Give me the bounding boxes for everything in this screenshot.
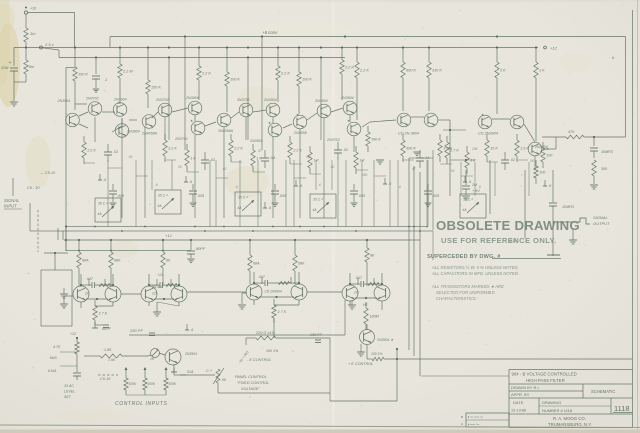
svg-text:.02: .02 xyxy=(510,158,515,162)
svg-text:.1: .1 xyxy=(104,78,107,82)
svg-text:100: 100 xyxy=(539,171,546,175)
svg-text:80PF: 80PF xyxy=(102,327,112,331)
svg-text:+12: +12 xyxy=(550,46,558,51)
svg-text:+6 conv: +6 conv xyxy=(262,30,278,35)
svg-text:B: B xyxy=(461,415,463,419)
svg-text:.047: .047 xyxy=(86,277,94,281)
svg-text:.02: .02 xyxy=(330,165,335,169)
svg-text:DRAWING: DRAWING xyxy=(542,400,561,405)
svg-text:CHARACTERISTICS.: CHARACTERISTICS. xyxy=(436,296,477,301)
svg-text:▮ xxx xxxxx xxx: ▮ xxx xxxxx xxx xyxy=(468,416,484,419)
svg-text:600 K: 600 K xyxy=(406,147,416,151)
svg-text:-6: -6 xyxy=(103,178,106,182)
svg-text:+ 6V: + 6V xyxy=(472,189,480,193)
svg-text:MLB: MLB xyxy=(50,356,57,360)
svg-text:68K: 68K xyxy=(298,262,305,266)
svg-text:1.5K: 1.5K xyxy=(108,358,116,362)
svg-text:2.2 K: 2.2 K xyxy=(233,147,243,151)
svg-text:C5 - 10: C5 - 10 xyxy=(27,186,40,190)
svg-text:DATE: DATE xyxy=(513,400,524,405)
svg-text:8K: 8K xyxy=(166,259,171,263)
svg-text:.02: .02 xyxy=(222,167,227,171)
svg-text:1 K: 1 K xyxy=(256,157,262,161)
svg-text:100K: 100K xyxy=(148,382,156,386)
svg-text:2N3902: 2N3902 xyxy=(249,139,263,143)
svg-text:1M: 1M xyxy=(306,155,311,159)
svg-text:C5-16: C5-16 xyxy=(100,377,111,381)
svg-text:2.2 K: 2.2 K xyxy=(344,66,354,70)
svg-text:SCHEMATIC: SCHEMATIC xyxy=(591,389,615,394)
svg-text:180M: 180M xyxy=(370,315,380,319)
svg-text:2.2 M: 2.2 M xyxy=(122,70,133,74)
svg-text:DRAWN BY R.I.: DRAWN BY R.I. xyxy=(511,385,540,390)
svg-text:SIGNAL: SIGNAL xyxy=(4,198,20,203)
svg-text:OBSOLETE DRAWING: OBSOLETE DRAWING xyxy=(436,218,580,233)
svg-text:100 K: 100 K xyxy=(230,78,240,82)
svg-text:VOLTAGE": VOLTAGE" xyxy=(241,387,260,391)
svg-text:2N3904 ★: 2N3904 ★ xyxy=(376,338,394,342)
svg-text:2N4058A: 2N4058A xyxy=(217,129,234,133)
svg-text:3 MB: 3 MB xyxy=(443,147,452,151)
svg-text:CD 2N3904: CD 2N3904 xyxy=(265,290,282,294)
svg-text:150 K: 150 K xyxy=(78,73,88,77)
svg-text:2N3904: 2N3904 xyxy=(263,98,277,102)
svg-text:100K: 100K xyxy=(169,382,177,386)
svg-text:300: 300 xyxy=(601,167,608,171)
svg-text:-6: -6 xyxy=(398,185,401,189)
svg-text:2N3904: 2N3904 xyxy=(340,96,354,100)
svg-text:12-13-66: 12-13-66 xyxy=(511,409,526,413)
svg-text:-6: -6 xyxy=(388,182,391,186)
svg-text:47K: 47K xyxy=(568,130,575,134)
svg-text:SIGNAL: SIGNAL xyxy=(593,215,608,220)
svg-text:2M: 2M xyxy=(471,183,478,187)
svg-text:-6: -6 xyxy=(318,183,321,187)
svg-text:LEVEL: LEVEL xyxy=(64,390,75,394)
svg-text:C↗: C↗ xyxy=(206,369,213,373)
svg-text:-6: -6 xyxy=(189,180,192,184)
svg-text:CONTROL INPUTS: CONTROL INPUTS xyxy=(115,401,168,407)
svg-text:A: A xyxy=(461,422,463,426)
svg-text:100K: 100K xyxy=(129,382,137,386)
svg-text:-6: -6 xyxy=(235,185,238,189)
svg-text:.02: .02 xyxy=(210,158,215,162)
svg-text:68K: 68K xyxy=(114,259,121,263)
svg-text:33 AC: 33 AC xyxy=(64,384,74,388)
svg-text:51A: 51A xyxy=(187,370,194,374)
svg-text:100 K: 100 K xyxy=(302,78,312,82)
svg-text:100 1%: 100 1% xyxy=(266,349,279,353)
svg-text:CD: CD xyxy=(354,291,359,295)
svg-text:ALL TRANSISTORS MARKED ★ A: ALL TRANSISTORS MARKED ★ ARE xyxy=(431,284,504,289)
svg-text:150 K: 150 K xyxy=(151,86,161,90)
svg-text:20M: 20M xyxy=(0,66,9,70)
svg-text:.02: .02 xyxy=(128,155,133,159)
svg-text:10MFD: 10MFD xyxy=(562,205,574,209)
svg-text:2N3702: 2N3702 xyxy=(326,138,340,142)
svg-text:1 K: 1 K xyxy=(539,69,545,73)
svg-text:← C5-10: ← C5-10 xyxy=(40,171,56,175)
svg-text:+10: +10 xyxy=(30,7,36,11)
svg-text:INPUT: INPUT xyxy=(4,204,17,209)
svg-text:+: + xyxy=(9,60,12,66)
svg-text:.02: .02 xyxy=(343,148,348,152)
svg-text:2N3904: 2N3904 xyxy=(184,352,197,356)
svg-text:2.7 K: 2.7 K xyxy=(98,312,108,316)
svg-text:2N4058A: 2N4058A xyxy=(141,132,158,136)
svg-text:+12: +12 xyxy=(157,273,163,277)
svg-text:R. A. MOOG CO.: R. A. MOOG CO. xyxy=(553,416,586,421)
svg-text:SELECTED FOR UNIFORMED: SELECTED FOR UNIFORMED xyxy=(436,290,495,295)
svg-text:+ E CONTROL: + E CONTROL xyxy=(348,362,373,366)
svg-text:100: 100 xyxy=(546,154,553,158)
svg-text:ALL RESISTORS ½ W. 5 % UNL: ALL RESISTORS ½ W. 5 % UNLESS NOTED. xyxy=(431,265,519,270)
svg-text:.02: .02 xyxy=(450,169,455,173)
svg-text:1 K: 1 K xyxy=(190,157,196,161)
svg-text:68A: 68A xyxy=(253,262,260,266)
svg-text:NUMBER # 1118: NUMBER # 1118 xyxy=(542,408,573,413)
svg-text:.005: .005 xyxy=(197,194,205,198)
svg-text:47: 47 xyxy=(258,149,262,153)
svg-text:3 K: 3 K xyxy=(500,69,506,73)
svg-text:10MFD: 10MFD xyxy=(601,150,613,154)
svg-text:2.2 K: 2.2 K xyxy=(167,147,177,151)
svg-text:35 C↗: 35 C↗ xyxy=(158,194,168,198)
svg-text:▮ xxxxx #xx: ▮ xxxxx #xx xyxy=(468,423,480,426)
svg-text:2.7 K: 2.7 K xyxy=(277,310,287,314)
svg-text:2.2 K: 2.2 K xyxy=(201,72,211,76)
svg-text:8.16A: 8.16A xyxy=(48,369,56,373)
svg-text:-6: -6 xyxy=(299,184,302,188)
svg-text:6K: 6K xyxy=(222,378,227,382)
svg-text:35 C↗: 35 C↗ xyxy=(463,198,473,202)
svg-text:2N3702: 2N3702 xyxy=(236,98,250,102)
svg-text:-6: -6 xyxy=(190,328,193,332)
svg-text:2.5 v: 2.5 v xyxy=(44,42,55,47)
svg-text:1.8K: 1.8K xyxy=(104,348,112,352)
svg-text:15 K: 15 K xyxy=(490,147,498,151)
svg-text:CD: CD xyxy=(152,292,157,296)
svg-text:390 K: 390 K xyxy=(371,138,381,142)
svg-text:2.2 K: 2.2 K xyxy=(359,69,369,73)
svg-text:2.2 K: 2.2 K xyxy=(292,149,302,153)
svg-text:68A: 68A xyxy=(82,259,89,263)
svg-text:TRUMANSBURG, N.Y.: TRUMANSBURG, N.Y. xyxy=(548,422,592,427)
svg-text:PANEL CONTROL: PANEL CONTROL xyxy=(235,375,267,379)
svg-text:ALL CAPACITORS IN MFD. UNL: ALL CAPACITORS IN MFD. UNLESS NOTED. xyxy=(431,271,519,276)
svg-text:2.2 K: 2.2 K xyxy=(280,72,290,76)
svg-text:-6: -6 xyxy=(468,180,471,184)
svg-text:-6: -6 xyxy=(478,185,481,189)
svg-text:250 PF: 250 PF xyxy=(129,328,143,333)
svg-text:2N3904: 2N3904 xyxy=(314,99,328,103)
svg-text:SET: SET xyxy=(64,395,72,399)
svg-text:1M: 1M xyxy=(270,156,275,160)
svg-text:4.7K: 4.7K xyxy=(53,345,61,349)
svg-text:15K: 15K xyxy=(472,147,479,151)
svg-text:35 C↗: 35 C↗ xyxy=(98,202,108,206)
svg-text:2N3904: 2N3904 xyxy=(57,99,71,103)
svg-text:"FIXED CONTROL: "FIXED CONTROL xyxy=(237,381,269,385)
svg-text:USE FOR REFERENCE ONLY.: USE FOR REFERENCE ONLY. xyxy=(441,236,557,245)
svg-text:8m: 8m xyxy=(29,65,34,69)
svg-text:CD 2N 3904: CD 2N 3904 xyxy=(398,132,419,136)
svg-text:2N3702: 2N3702 xyxy=(155,98,169,102)
svg-text:-6: -6 xyxy=(548,184,551,188)
svg-text:CD 2N3904: CD 2N3904 xyxy=(478,132,498,136)
svg-text:-6: -6 xyxy=(268,206,271,210)
svg-text:+12: +12 xyxy=(165,233,173,238)
svg-text:.02: .02 xyxy=(113,150,118,154)
svg-text:- E CONTROL: - E CONTROL xyxy=(247,358,271,362)
svg-text:2.2 K: 2.2 K xyxy=(86,149,96,153)
svg-text:.005: .005 xyxy=(117,194,125,198)
svg-text:.047: .047 xyxy=(355,276,363,280)
svg-text:C50 PF: C50 PF xyxy=(310,333,323,337)
svg-text:220 Ω ±1%: 220 Ω ±1% xyxy=(255,331,276,335)
svg-text:2N3702: 2N3702 xyxy=(174,137,188,141)
svg-text:35 C↗: 35 C↗ xyxy=(313,198,323,202)
svg-text:100: 100 xyxy=(362,173,368,177)
svg-text:-6: -6 xyxy=(155,183,158,187)
svg-text:1 K: 1 K xyxy=(470,159,476,163)
svg-text:330 K: 330 K xyxy=(432,69,442,73)
svg-text:1118: 1118 xyxy=(614,404,630,413)
svg-text:100 1%: 100 1% xyxy=(371,352,383,356)
svg-text:6K: 6K xyxy=(370,254,375,258)
svg-text:35 C↗: 35 C↗ xyxy=(238,196,248,200)
svg-text:+12: +12 xyxy=(70,332,76,336)
svg-text:(X): (X) xyxy=(85,292,89,296)
svg-text:80PF: 80PF xyxy=(196,247,206,251)
svg-text:OUTPUT: OUTPUT xyxy=(593,221,610,226)
svg-text:600 K: 600 K xyxy=(406,69,416,73)
svg-text:2N3904: 2N3904 xyxy=(185,96,199,100)
svg-text:SUPERCEDED BY DWG. #: SUPERCEDED BY DWG. # xyxy=(427,254,501,260)
svg-text:904 - B VOLTAGE CONTRO: 904 - B VOLTAGE CONTROLLED xyxy=(512,372,577,377)
svg-text:2N3904: 2N3904 xyxy=(126,130,140,134)
svg-text:APPR. BY: APPR. BY xyxy=(511,392,530,397)
svg-text:1.5 K: 1.5 K xyxy=(520,147,529,151)
svg-text:3m: 3m xyxy=(30,31,36,36)
svg-text:2N3702: 2N3702 xyxy=(85,97,99,101)
